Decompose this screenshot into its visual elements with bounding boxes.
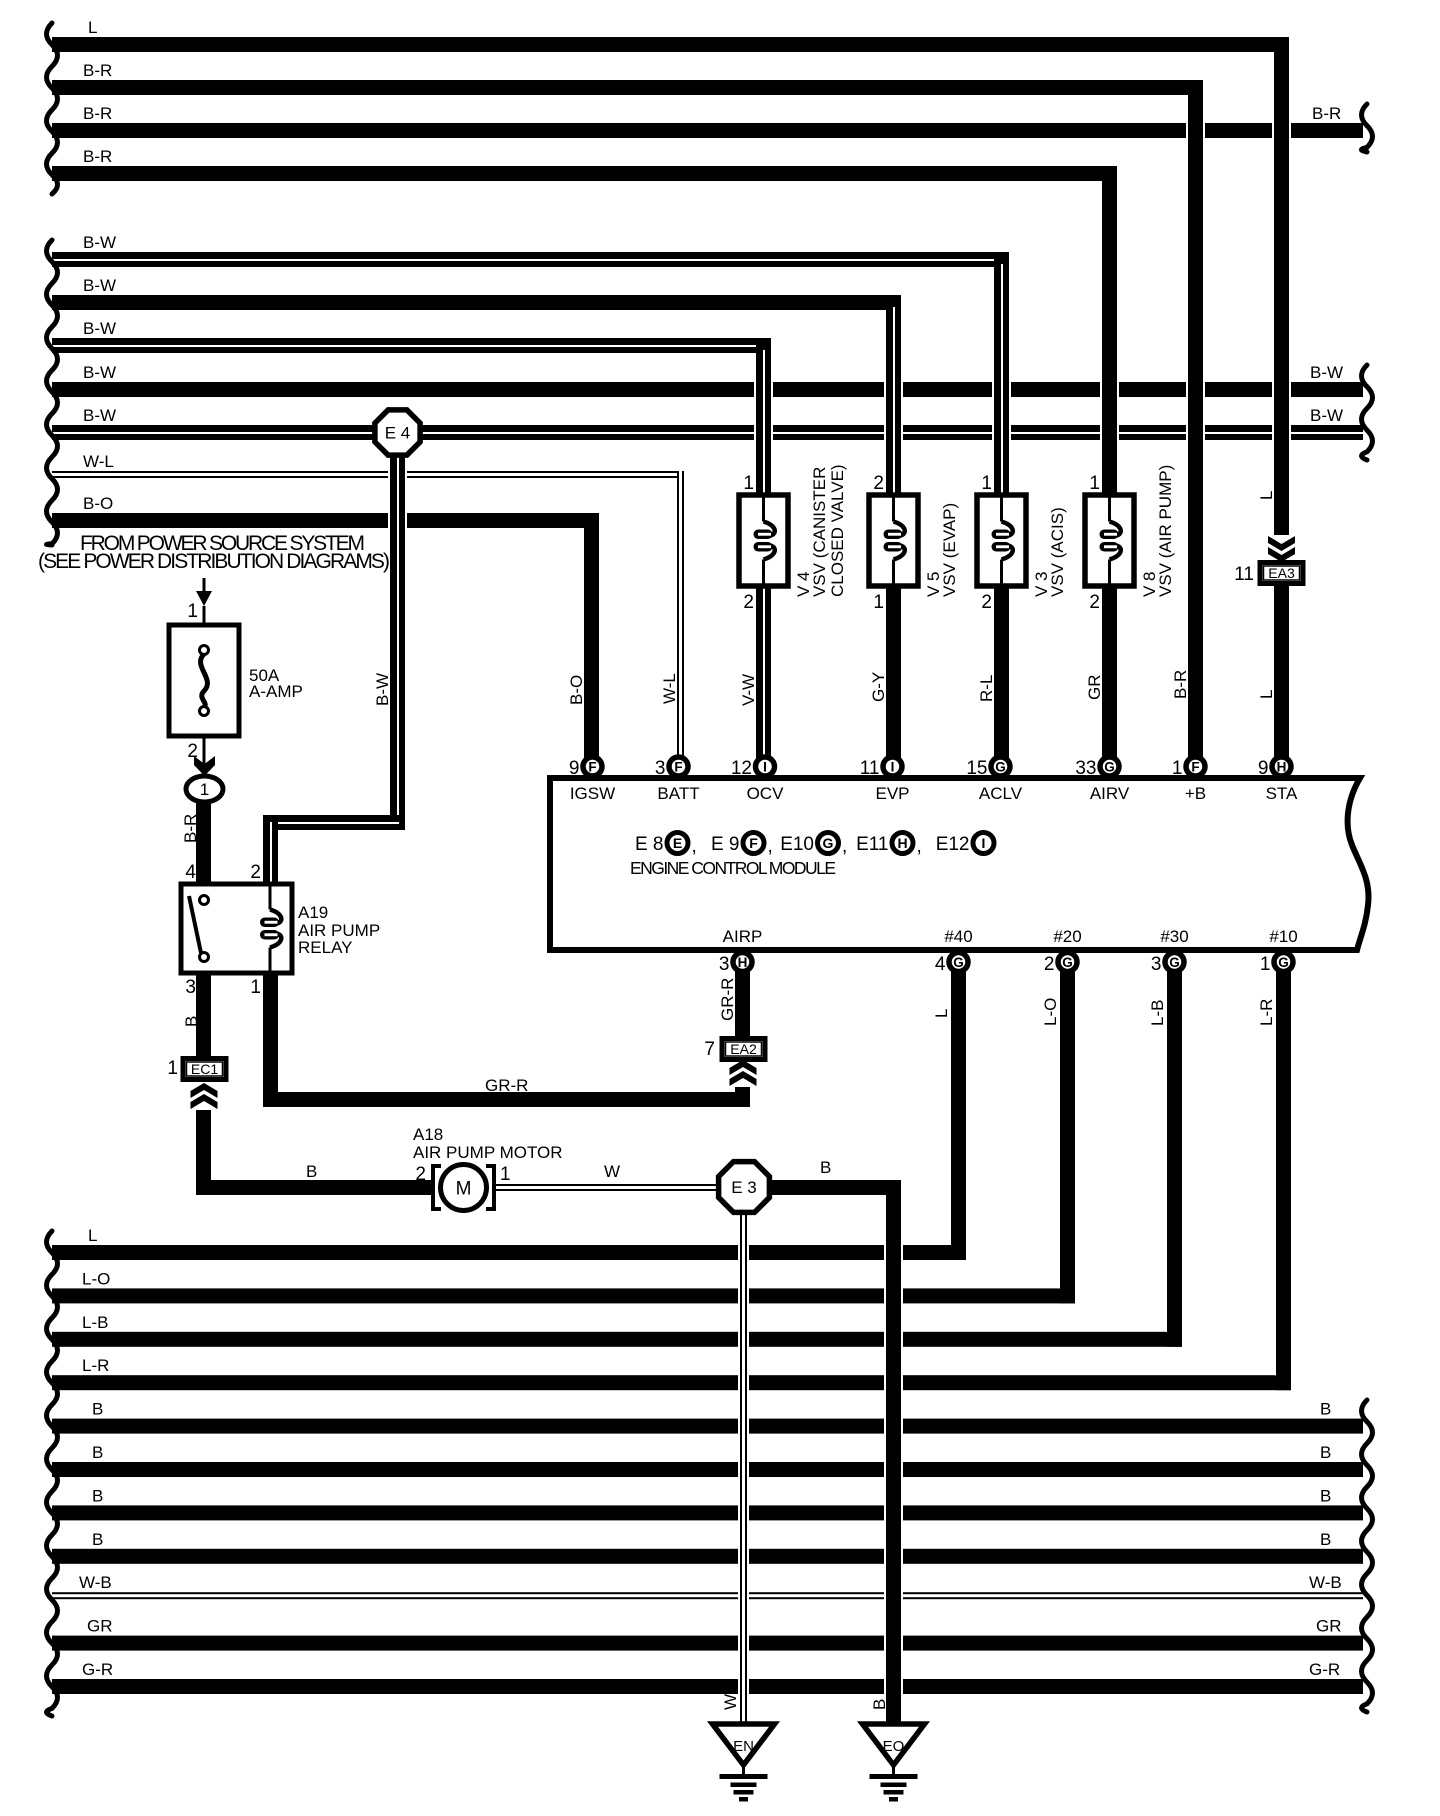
svg-text:L-R: L-R <box>1257 999 1276 1026</box>
svg-text:#10: #10 <box>1269 927 1297 946</box>
svg-text:W: W <box>604 1162 620 1181</box>
svg-text:VSV (ACIS): VSV (ACIS) <box>1048 507 1067 597</box>
svg-text:3: 3 <box>1151 954 1162 975</box>
svg-text:9: 9 <box>569 758 580 779</box>
svg-text:B-R: B-R <box>181 814 200 843</box>
svg-text:2: 2 <box>981 592 992 613</box>
svg-text:G-Y: G-Y <box>869 672 888 702</box>
svg-text:2: 2 <box>187 741 198 762</box>
svg-text:3: 3 <box>185 977 196 998</box>
svg-text:4: 4 <box>185 862 196 883</box>
svg-text:G: G <box>1278 955 1289 970</box>
svg-text:F: F <box>749 835 758 851</box>
svg-text:B-W: B-W <box>1310 363 1343 382</box>
svg-text:L-O: L-O <box>1041 998 1060 1026</box>
svg-text:E 8: E 8 <box>635 834 664 855</box>
svg-text:+B: +B <box>1185 784 1206 803</box>
svg-text:1: 1 <box>167 1058 178 1079</box>
svg-text:11: 11 <box>860 758 880 779</box>
svg-text:3: 3 <box>719 954 730 975</box>
svg-text:1: 1 <box>187 601 198 622</box>
svg-text:AIRV: AIRV <box>1090 784 1130 803</box>
svg-text:A19: A19 <box>298 903 328 922</box>
svg-text:G: G <box>1104 759 1115 774</box>
svg-text:,: , <box>842 836 847 857</box>
svg-text:#40: #40 <box>944 927 972 946</box>
svg-text:RELAY: RELAY <box>298 938 353 957</box>
svg-text:B-W: B-W <box>83 233 116 252</box>
svg-text:GR-R: GR-R <box>485 1076 528 1095</box>
svg-text:,: , <box>768 836 773 857</box>
svg-text:L-B: L-B <box>1148 1000 1167 1026</box>
svg-text:4: 4 <box>935 954 946 975</box>
svg-text:EVP: EVP <box>875 784 909 803</box>
svg-text:L: L <box>88 1226 97 1245</box>
svg-text:AIRP: AIRP <box>723 927 763 946</box>
svg-text:EC1: EC1 <box>191 1061 218 1077</box>
svg-text:E 3: E 3 <box>731 1178 757 1197</box>
svg-text:E10: E10 <box>780 834 814 855</box>
svg-text:2: 2 <box>415 1164 426 1185</box>
svg-text:7: 7 <box>704 1039 715 1060</box>
svg-text:OCV: OCV <box>747 784 785 803</box>
svg-text:GR-R: GR-R <box>718 978 737 1021</box>
svg-text:B: B <box>92 1443 103 1462</box>
svg-text:1: 1 <box>743 473 754 494</box>
svg-text:W-L: W-L <box>660 673 679 704</box>
svg-text:L: L <box>1257 491 1276 500</box>
svg-text:G: G <box>1169 955 1180 970</box>
svg-text:#30: #30 <box>1160 927 1188 946</box>
svg-text:F: F <box>674 759 682 774</box>
svg-text:A-AMP: A-AMP <box>249 682 303 701</box>
svg-text:1: 1 <box>1089 473 1100 494</box>
svg-text:BATT: BATT <box>657 784 699 803</box>
svg-text:B: B <box>1320 1486 1331 1505</box>
svg-text:B: B <box>92 1530 103 1549</box>
svg-text:AIR PUMP MOTOR: AIR PUMP MOTOR <box>413 1143 563 1162</box>
svg-text:B-W: B-W <box>83 319 116 338</box>
svg-text:L-B: L-B <box>82 1313 108 1332</box>
svg-text:33: 33 <box>1075 758 1096 779</box>
svg-text:STA: STA <box>1266 784 1298 803</box>
svg-text:B: B <box>1320 1530 1331 1549</box>
svg-text:V-W: V-W <box>739 674 758 706</box>
svg-text:EA2: EA2 <box>730 1041 757 1057</box>
svg-text:B-R: B-R <box>1171 670 1190 699</box>
svg-text:W: W <box>721 1694 740 1710</box>
svg-text:2: 2 <box>250 862 261 883</box>
svg-text:B-O: B-O <box>83 494 113 513</box>
svg-text:EA3: EA3 <box>1268 565 1295 581</box>
svg-text:,: , <box>917 836 922 857</box>
svg-text:B: B <box>306 1162 317 1181</box>
svg-text:EO: EO <box>883 1738 905 1755</box>
svg-text:9: 9 <box>1258 758 1269 779</box>
svg-text:R-L: R-L <box>977 675 996 702</box>
svg-text:VSV (EVAP): VSV (EVAP) <box>940 503 959 597</box>
svg-text:2: 2 <box>743 592 754 613</box>
svg-text:F: F <box>588 759 596 774</box>
svg-text:VSV (AIR PUMP): VSV (AIR PUMP) <box>1156 465 1175 597</box>
svg-text:L: L <box>88 18 97 37</box>
svg-text:ENGINE CONTROL MODULE: ENGINE CONTROL MODULE <box>630 858 836 878</box>
svg-text:W-B: W-B <box>1309 1573 1342 1592</box>
svg-text:IGSW: IGSW <box>570 784 615 803</box>
svg-text:H: H <box>738 955 748 970</box>
svg-text:B: B <box>870 1699 889 1710</box>
svg-text:E12: E12 <box>936 834 970 855</box>
svg-text:B-R: B-R <box>83 147 112 166</box>
svg-text:W-L: W-L <box>83 452 114 471</box>
svg-text:1: 1 <box>1260 954 1271 975</box>
svg-text:B-W: B-W <box>83 363 116 382</box>
svg-text:1: 1 <box>250 977 261 998</box>
svg-text:2: 2 <box>1044 954 1055 975</box>
svg-text:A18: A18 <box>413 1125 443 1144</box>
svg-text:EN: EN <box>733 1738 754 1755</box>
svg-text:1: 1 <box>200 780 209 799</box>
svg-text:B-O: B-O <box>567 675 586 705</box>
svg-text:1: 1 <box>981 473 992 494</box>
svg-text:2: 2 <box>1089 592 1100 613</box>
svg-text:B: B <box>820 1158 831 1177</box>
svg-text:15: 15 <box>966 758 987 779</box>
svg-text:G: G <box>995 759 1006 774</box>
svg-text:L: L <box>932 1009 951 1018</box>
svg-text:W-B: W-B <box>79 1573 112 1592</box>
svg-text:B: B <box>92 1400 103 1419</box>
svg-text:B-W: B-W <box>373 673 392 706</box>
svg-text:B-R: B-R <box>83 104 112 123</box>
svg-text:E 9: E 9 <box>711 834 740 855</box>
svg-text:#20: #20 <box>1053 927 1081 946</box>
svg-text:H: H <box>1277 759 1287 774</box>
svg-text:1: 1 <box>500 1164 511 1185</box>
svg-text:B: B <box>182 1016 201 1027</box>
svg-text:B: B <box>1320 1443 1331 1462</box>
svg-text:2: 2 <box>873 473 884 494</box>
svg-text:GR: GR <box>87 1617 113 1636</box>
svg-text:3: 3 <box>655 758 666 779</box>
svg-text:,: , <box>692 836 697 857</box>
svg-text:I: I <box>891 759 895 774</box>
svg-text:GR: GR <box>1316 1617 1342 1636</box>
svg-text:B: B <box>1320 1400 1331 1419</box>
svg-text:B-R: B-R <box>1312 104 1341 123</box>
svg-text:1: 1 <box>873 592 884 613</box>
svg-text:CLOSED VALVE): CLOSED VALVE) <box>828 464 847 597</box>
svg-text:H: H <box>897 835 907 851</box>
svg-text:G: G <box>953 955 964 970</box>
svg-text:E 4: E 4 <box>385 424 411 443</box>
svg-text:I: I <box>982 835 986 851</box>
svg-text:G-R: G-R <box>1309 1660 1340 1679</box>
svg-text:G-R: G-R <box>82 1660 113 1679</box>
svg-text:E11: E11 <box>856 834 888 855</box>
svg-text:B-W: B-W <box>83 406 116 425</box>
svg-text:GR: GR <box>1085 675 1104 701</box>
svg-text:B-W: B-W <box>83 276 116 295</box>
svg-text:VSV (CANISTER: VSV (CANISTER <box>810 467 829 597</box>
svg-text:(SEE POWER DISTRIBUTION DIAGRA: (SEE POWER DISTRIBUTION DIAGRAMS) <box>38 550 390 573</box>
svg-text:B: B <box>92 1486 103 1505</box>
svg-text:ACLV: ACLV <box>979 784 1023 803</box>
svg-text:I: I <box>763 759 767 774</box>
svg-text:12: 12 <box>731 758 752 779</box>
svg-text:E: E <box>673 835 682 851</box>
svg-text:B-W: B-W <box>1310 406 1343 425</box>
svg-text:G: G <box>1062 955 1073 970</box>
svg-text:L-R: L-R <box>82 1356 109 1375</box>
svg-text:L-O: L-O <box>82 1269 110 1288</box>
svg-text:F: F <box>1191 759 1199 774</box>
svg-text:1: 1 <box>1172 758 1183 779</box>
svg-text:M: M <box>456 1179 472 1200</box>
svg-text:B-R: B-R <box>83 61 112 80</box>
svg-text:11: 11 <box>1234 564 1254 585</box>
svg-text:G: G <box>823 835 834 851</box>
svg-text:L: L <box>1257 690 1276 699</box>
